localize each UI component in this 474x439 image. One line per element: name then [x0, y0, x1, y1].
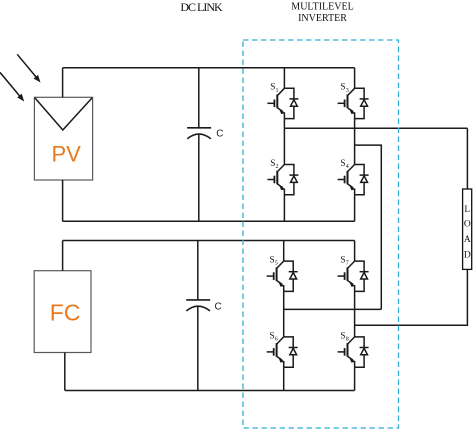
- IGBT switch S6: [267, 337, 298, 367]
- wire S5 emitter to node C: [283, 291, 285, 309]
- wire FC bottom bus: [65, 390, 355, 392]
- wire S6 collector: [283, 309, 285, 337]
- svg-text:6: 6: [275, 337, 278, 343]
- svg-text:A: A: [464, 235, 471, 245]
- svg-text:MULTILEVEL: MULTILEVEL: [291, 2, 353, 13]
- IGBT switch S5: [267, 261, 298, 291]
- wire S2 emitter: [283, 195, 285, 222]
- multilevel inverter dashed boundary: [243, 40, 399, 428]
- capacitor C1 top lead: [198, 68, 200, 128]
- wire top bus (PV+): [63, 67, 355, 69]
- sun arrow 1: [17, 54, 36, 77]
- IGBT switch S3: [338, 88, 369, 118]
- wire PV top: [62, 68, 64, 98]
- sun arrow 2: [0, 72, 20, 96]
- IGBT switch S7: [338, 261, 369, 291]
- IGBT switch S8: [338, 337, 369, 367]
- load block: [463, 189, 472, 269]
- node B link to H2: [355, 145, 382, 309]
- wire S5 collector: [283, 241, 285, 262]
- svg-text:L: L: [464, 205, 470, 215]
- capacitor C1 plates: [187, 127, 211, 129]
- node A bus (S1/S2 junction to load): [284, 127, 467, 129]
- capacitor C2 plates: [186, 299, 210, 301]
- svg-text:INVERTER: INVERTER: [298, 13, 347, 24]
- wire H2 top bus (FC+): [63, 240, 355, 242]
- wire load top: [466, 128, 468, 189]
- PV source block: [34, 97, 92, 180]
- svg-text:FC: FC: [50, 300, 81, 326]
- FC source block: [34, 271, 91, 353]
- wire S2 collector: [283, 128, 285, 164]
- svg-text:DC LINK: DC LINK: [180, 0, 223, 14]
- IGBT switch S1: [267, 88, 298, 118]
- wire S1 collector: [283, 68, 285, 89]
- svg-text:2: 2: [276, 164, 279, 170]
- wire FC bottom: [64, 353, 66, 391]
- svg-text:C: C: [216, 129, 223, 140]
- wire S3 emitter to node B: [354, 119, 356, 146]
- wire S4 collector: [354, 145, 356, 164]
- PV chevron: [35, 98, 92, 130]
- capacitor C2 top lead: [197, 241, 199, 300]
- svg-text:O: O: [464, 220, 471, 230]
- wire S1 emitter to node A: [283, 119, 285, 129]
- node D link to load bottom: [355, 269, 468, 325]
- wire PV bottom bus: [63, 220, 355, 222]
- capacitor C1 bottom lead: [198, 135, 200, 222]
- svg-text:C: C: [215, 302, 222, 313]
- wire PV bottom: [62, 180, 64, 221]
- capacitor C2 bottom lead: [197, 307, 199, 391]
- svg-text:D: D: [464, 251, 471, 261]
- wire S7 emitter to node D: [354, 291, 356, 337]
- node C bus (S5/S6 junction): [284, 308, 382, 310]
- svg-text:7: 7: [346, 261, 349, 267]
- wire FC top: [62, 241, 64, 271]
- svg-text:3: 3: [346, 88, 349, 94]
- wire S7 collector: [354, 241, 356, 262]
- wire S8 emitter: [354, 367, 356, 390]
- IGBT switch S2: [267, 165, 298, 195]
- wire S3 collector: [354, 68, 356, 89]
- IGBT switch S4: [338, 165, 369, 195]
- svg-text:4: 4: [346, 164, 349, 170]
- svg-text:8: 8: [346, 337, 349, 343]
- svg-text:1: 1: [276, 88, 279, 94]
- svg-text:5: 5: [275, 261, 278, 267]
- wire S4 emitter: [354, 195, 356, 222]
- svg-text:PV: PV: [52, 142, 82, 167]
- wire S6 emitter: [283, 367, 285, 390]
